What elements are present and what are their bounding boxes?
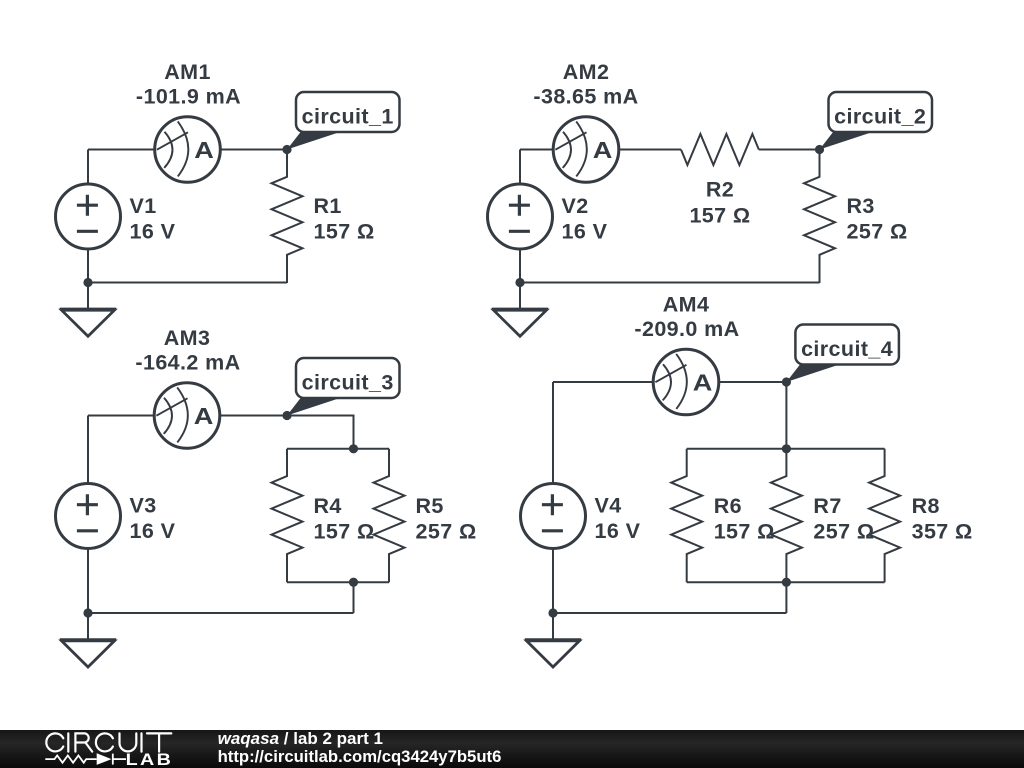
svg-text:V1: V1 xyxy=(130,194,157,218)
voltage source V1 xyxy=(56,184,121,249)
wire left: V1 branch vertical xyxy=(87,150,89,283)
svg-text:R4: R4 xyxy=(314,494,342,518)
wire top: V2 to AM2 to R2 xyxy=(520,149,681,151)
resistor R5 xyxy=(374,449,405,583)
svg-text:R2: R2 xyxy=(706,178,734,202)
wire drop to ground rail xyxy=(785,582,787,613)
svg-text:V4: V4 xyxy=(595,494,622,518)
junction node rail bottom xyxy=(782,578,791,587)
svg-text:257 Ω: 257 Ω xyxy=(416,520,477,544)
wire R3 bottom lead xyxy=(819,255,821,283)
wire bottom: ground rail xyxy=(553,612,786,614)
svg-text:waqasa / lab 2 part 1: waqasa / lab 2 part 1 xyxy=(218,729,383,748)
CircuitLab logo wordmark CIRCUIT xyxy=(46,733,171,751)
wire node drop to rail xyxy=(785,382,787,449)
svg-text:R7: R7 xyxy=(813,494,841,518)
wire bottom: ground rail xyxy=(88,612,354,614)
svg-text:AM2: AM2 xyxy=(563,60,610,84)
node circuit_2 callout xyxy=(820,92,933,150)
resistor R7 xyxy=(771,449,802,583)
svg-text:-101.9 mA: -101.9 mA xyxy=(136,84,241,108)
logo schematic wire with resistor and diode xyxy=(45,754,126,765)
svg-text:16 V: 16 V xyxy=(130,519,176,543)
resistor R3 xyxy=(804,150,835,284)
svg-text:circuit_3: circuit_3 xyxy=(302,371,394,395)
svg-text:257 Ω: 257 Ω xyxy=(813,520,874,544)
ground G2 xyxy=(492,309,548,336)
node circuit_1 callout xyxy=(287,92,400,150)
resistor R4 xyxy=(272,449,303,583)
junction node rail bottom xyxy=(349,578,358,587)
svg-text:R1: R1 xyxy=(314,194,342,218)
voltage source V3 xyxy=(56,484,121,549)
wire parallel bottom rail xyxy=(287,581,389,583)
wire parallel bottom rail xyxy=(687,581,885,583)
ammeter AM4 xyxy=(653,349,719,415)
junction node rail top xyxy=(349,444,358,453)
resistor R1 xyxy=(272,150,303,284)
junction node circuit_2 xyxy=(815,145,824,154)
svg-text:357 Ω: 357 Ω xyxy=(912,520,973,544)
ammeter AM2 xyxy=(553,117,619,183)
voltage source V2 xyxy=(488,184,553,249)
svg-text:LAB: LAB xyxy=(126,750,174,768)
svg-text:circuit_2: circuit_2 xyxy=(834,105,926,129)
voltage source V4 xyxy=(521,484,586,549)
svg-text:http://circuitlab.com/cq3424y7: http://circuitlab.com/cq3424y7b5ut6 xyxy=(218,747,502,766)
resistor R8 xyxy=(869,449,900,583)
wire R2 to node circuit_2 xyxy=(759,149,820,151)
svg-text:circuit_1: circuit_1 xyxy=(302,105,394,129)
svg-text:-164.2 mA: -164.2 mA xyxy=(135,350,240,374)
junction node circuit_4 xyxy=(782,377,791,386)
junction node circuit_1 xyxy=(282,145,291,154)
svg-text:AM3: AM3 xyxy=(164,326,211,350)
junction node gnd1 xyxy=(83,278,92,287)
wire node to corner xyxy=(287,416,354,449)
svg-text:157 Ω: 157 Ω xyxy=(689,204,750,228)
wire parallel top rail xyxy=(287,448,389,450)
svg-text:V3: V3 xyxy=(130,494,157,518)
wire ground stem xyxy=(552,613,554,640)
svg-text:R5: R5 xyxy=(416,494,444,518)
wire left: V4 branch vertical xyxy=(552,382,554,613)
wire bottom: ground rail xyxy=(520,282,820,284)
svg-text:R3: R3 xyxy=(847,194,875,218)
junction node gnd2 xyxy=(515,278,524,287)
svg-text:16 V: 16 V xyxy=(130,220,176,244)
junction node rail top xyxy=(782,444,791,453)
wire bottom: ground rail xyxy=(88,282,287,284)
svg-text:circuit_4: circuit_4 xyxy=(801,337,893,361)
ammeter AM3 xyxy=(154,383,220,449)
ground G4 xyxy=(525,640,581,667)
wire ground stem xyxy=(519,283,521,310)
resistor R2 (horizontal) xyxy=(681,134,759,165)
wire ground stem xyxy=(87,613,89,640)
junction node gnd4 xyxy=(548,608,557,617)
wire drop to ground rail xyxy=(353,582,355,613)
svg-text:16 V: 16 V xyxy=(595,519,641,543)
svg-text:R8: R8 xyxy=(912,494,940,518)
wire top: V1 top to node circuit_1 xyxy=(88,149,287,151)
svg-text:157 Ω: 157 Ω xyxy=(314,220,375,244)
node circuit_3 callout xyxy=(287,358,400,416)
wire ground stem xyxy=(87,283,89,310)
logo diode triangle xyxy=(97,753,112,765)
wire top: V4 to node circuit_4 xyxy=(553,381,786,383)
svg-text:16 V: 16 V xyxy=(562,220,608,244)
svg-text:-38.65 mA: -38.65 mA xyxy=(533,84,638,108)
resistor R6 xyxy=(671,449,702,583)
wire top: V3 to node circuit_3 xyxy=(88,415,287,417)
junction node circuit_3 xyxy=(282,411,291,420)
junction node gnd3 xyxy=(83,608,92,617)
svg-text:R6: R6 xyxy=(714,494,742,518)
node circuit_4 callout xyxy=(786,325,899,383)
svg-text:157 Ω: 157 Ω xyxy=(714,520,775,544)
svg-text:AM4: AM4 xyxy=(663,293,710,317)
svg-text:V2: V2 xyxy=(562,194,589,218)
wire left: V3 branch vertical xyxy=(87,416,89,614)
ground G1 xyxy=(60,309,116,336)
svg-text:-209.0 mA: -209.0 mA xyxy=(634,317,739,341)
svg-text:157 Ω: 157 Ω xyxy=(314,520,375,544)
wire parallel top rail xyxy=(687,448,885,450)
ammeter AM1 xyxy=(155,117,221,183)
wire left: V2 branch vertical xyxy=(519,150,521,283)
svg-text:257 Ω: 257 Ω xyxy=(847,220,908,244)
ground G3 xyxy=(60,640,116,667)
svg-text:AM1: AM1 xyxy=(164,60,211,84)
